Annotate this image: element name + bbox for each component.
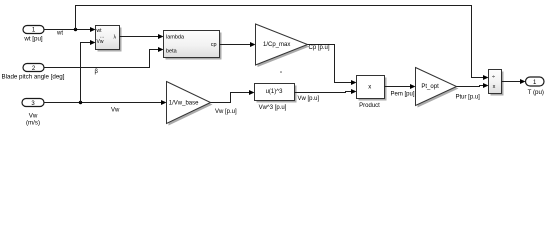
svg-text:Blade pitch angle [deg]: Blade pitch angle [deg] (2, 73, 65, 80)
svg-text:1/Cp_max: 1/Cp_max (263, 42, 290, 48)
wire Pem [pu] Product to gain Pt_opt (385, 84, 416, 97)
wire Vw branch to U1 (81, 40, 96, 103)
svg-text:Pt_opt: Pt_opt (421, 84, 439, 90)
subsystem U1 tip speed ratio (wt,Vw -> lambda) (96, 26, 122, 52)
svg-text:Product: Product (359, 103, 380, 109)
svg-text:Pem [pu]: Pem [pu] (391, 91, 415, 97)
node Vw junction (79, 101, 82, 104)
outport 1 T (pu) (526, 77, 545, 96)
inport 3 Vw (m/s) (22, 99, 44, 127)
wire lambda U1 to U2 (120, 34, 164, 39)
svg-text:wt [pu]: wt [pu] (23, 35, 43, 42)
wire Vw^3 Fcn to Product input 2 (295, 89, 357, 102)
svg-text:÷: ÷ (492, 74, 495, 80)
gain Pt_opt (416, 68, 459, 108)
gain 1/Vw_base (167, 82, 213, 126)
svg-text:β: β (95, 69, 99, 75)
svg-text:Vw [p.u]: Vw [p.u] (298, 96, 320, 102)
node wt junction (74, 28, 77, 31)
fcn block u(1)^3 (255, 84, 297, 112)
wire beta In2 to U2 (44, 47, 164, 75)
svg-text:x: x (493, 84, 496, 90)
svg-text:Ptur [p.u]: Ptur [p.u] (456, 94, 481, 100)
wire Vw In3 to gain 1/Vw_base (44, 100, 167, 114)
wire Vw [p.u] gain to Fcn (211, 90, 255, 115)
svg-text:Vw^3 [p.u]: Vw^3 [p.u] (259, 105, 287, 111)
wire cp U2 to gain (220, 42, 256, 47)
svg-text:cp: cp (211, 42, 217, 48)
svg-text:(m/s): (m/s) (26, 119, 40, 126)
annotation dot (280, 71, 282, 73)
svg-text:Vw [p.u]: Vw [p.u] (215, 109, 237, 115)
subsystem U2 cp(lambda,beta) (164, 31, 222, 60)
wire wt feedback to divide top input (76, 6, 489, 81)
svg-text:beta: beta (166, 48, 178, 54)
svg-text:Vw: Vw (97, 39, 104, 45)
product block (357, 76, 387, 109)
svg-text:Vw: Vw (111, 108, 120, 114)
svg-text:Cp [p.u]: Cp [p.u] (309, 45, 330, 51)
svg-text:lambda: lambda (166, 35, 185, 41)
svg-text:wt: wt (56, 31, 63, 37)
svg-text:1/Vw_base: 1/Vw_base (169, 100, 199, 106)
svg-text:u(1)^3: u(1)^3 (266, 89, 283, 95)
inport 2 Blade pitch angle [deg] (2, 64, 65, 81)
inport 1 wt [pu] (23, 26, 44, 43)
svg-text:...: ... (100, 34, 104, 40)
divide block (489, 70, 504, 96)
gain 1/Cp_max (256, 24, 310, 67)
wire T divide to Out1 (502, 79, 526, 84)
wire Ptur [p.u] gain to divide input 2 (456, 83, 489, 100)
svg-text:x: x (368, 84, 371, 90)
svg-text:T (pu): T (pu) (528, 89, 544, 96)
wire wt In1 to U1 (44, 27, 96, 37)
wire Cp [p.u] gain to Product input 1 (308, 45, 357, 86)
